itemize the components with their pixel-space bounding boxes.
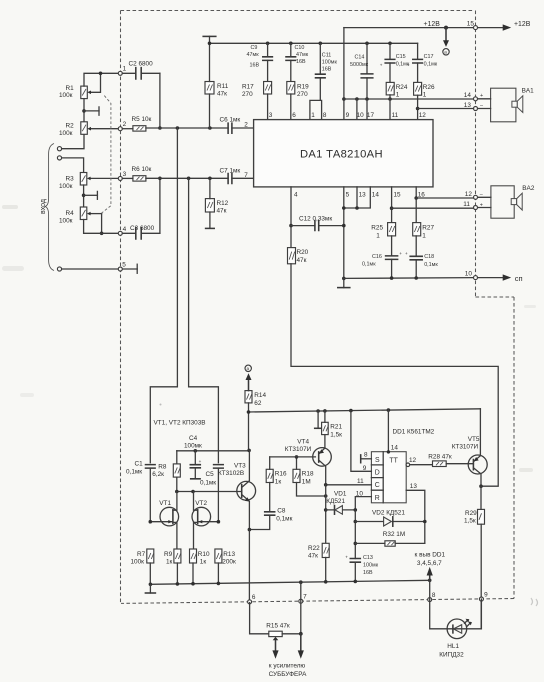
svg-text:–: – [480, 192, 483, 198]
svg-text:к усилителю: к усилителю [269, 662, 306, 669]
svg-text:5000мк: 5000мк [350, 62, 369, 68]
svg-text:R8: R8 [158, 464, 167, 471]
transistor VT1 [149, 492, 179, 550]
svg-text:СУББУФЕРА: СУББУФЕРА [269, 671, 308, 678]
resistor R21 [322, 411, 343, 448]
capacitor C2 [122, 61, 159, 79]
svg-text:+: + [199, 459, 202, 464]
svg-text:1к: 1к [200, 558, 207, 565]
svg-text:C2 6800: C2 6800 [129, 61, 154, 68]
+12V supply rail [344, 21, 531, 31]
svg-text:R21: R21 [330, 424, 342, 431]
diode VD2 [355, 509, 426, 526]
pin 10 R input wire [355, 490, 371, 510]
svg-text:C10: C10 [295, 45, 305, 51]
svg-text:1: 1 [422, 233, 426, 240]
svg-text:1: 1 [423, 91, 427, 98]
svg-text:100к: 100к [131, 558, 145, 565]
resistor R28 [428, 454, 452, 467]
pin 8 label [323, 112, 327, 119]
svg-text:R22: R22 [308, 545, 320, 552]
capacitor C11 [316, 43, 338, 100]
wire pin4 riser [289, 187, 293, 248]
wire VT4 collector chain [324, 485, 328, 544]
svg-text:9: 9 [363, 465, 367, 472]
svg-text:C3 6800: C3 6800 [130, 225, 155, 232]
wire VT3 emitter drop to node 6 [248, 530, 250, 601]
wire common to node 5 and ground bar [62, 264, 138, 273]
node 5 [118, 262, 126, 271]
pin 16 label [418, 191, 426, 198]
pin 7 label [244, 172, 248, 179]
node 7 [299, 593, 307, 603]
svg-text:R24: R24 [396, 84, 408, 91]
op-amp DA1 TA8210AH [254, 120, 433, 187]
output bus to node 10 [344, 276, 474, 280]
svg-text:C9: C9 [251, 45, 258, 51]
wire node 7 riser [300, 582, 302, 634]
svg-text:12: 12 [465, 191, 473, 198]
svg-text:8: 8 [323, 112, 327, 119]
pin 2 label [244, 121, 248, 128]
resistor R17 [242, 82, 272, 120]
arrow to DD1 supply pins [415, 552, 446, 581]
transistor VT4 [285, 438, 332, 485]
node 11 [463, 201, 483, 209]
svg-text:C8: C8 [277, 507, 286, 514]
svg-text:1: 1 [376, 233, 380, 240]
svg-text:C13: C13 [363, 555, 373, 561]
resistor R9 [164, 549, 181, 584]
svg-text:+: + [399, 251, 402, 256]
svg-text:16В: 16В [322, 67, 332, 73]
svg-text:C11: C11 [322, 53, 332, 59]
potentiometer R15 [266, 622, 302, 658]
wire C2 to R5 line [158, 73, 162, 130]
pin 4 label [294, 191, 298, 198]
svg-text:2: 2 [244, 121, 248, 128]
svg-text:R26: R26 [423, 84, 435, 91]
resistor R16 [266, 457, 287, 485]
ground at pin5 bus [338, 277, 350, 288]
svg-text:200к: 200к [222, 558, 236, 565]
svg-text:9: 9 [346, 112, 350, 119]
svg-text:0,1мк: 0,1мк [424, 262, 438, 268]
svg-text:13: 13 [359, 191, 367, 198]
resistor R10 [190, 549, 210, 584]
pin 14 label [372, 191, 380, 198]
svg-text:+12В: +12В [424, 21, 441, 28]
node 13 [464, 102, 483, 110]
svg-text:47к: 47к [217, 90, 227, 97]
wire channel-1 drop to VT1 stage [150, 128, 177, 463]
svg-text:100мк: 100мк [184, 442, 202, 449]
capacitor C5 [200, 465, 223, 522]
node 6 [248, 594, 256, 604]
svg-text:1,5к: 1,5к [464, 518, 476, 525]
svg-text:3,4,5,6,7: 3,4,5,6,7 [417, 560, 442, 567]
resistor R27 [413, 223, 435, 240]
svg-text:10: 10 [356, 490, 364, 497]
node 2 [118, 121, 126, 131]
resistor R22 [308, 543, 329, 581]
resistor R13 [215, 549, 236, 583]
svg-text:16В: 16В [296, 59, 306, 65]
capacitor C17 [407, 43, 438, 82]
wire pin15 to node 11 [390, 187, 474, 223]
svg-text:+: + [407, 62, 410, 67]
svg-text:R9: R9 [164, 551, 173, 558]
resistor R18 [293, 455, 328, 498]
svg-text:R19: R19 [297, 83, 309, 90]
pin 12 label [419, 112, 427, 119]
svg-text:–: – [480, 103, 483, 109]
resistor R19 [287, 82, 309, 120]
node 1 [118, 66, 126, 76]
wire pin16 to node 12 [414, 187, 473, 223]
pin 3 label [269, 112, 273, 119]
svg-text:C14: C14 [355, 55, 365, 61]
potentiometer R3 [59, 173, 120, 191]
svg-text:62: 62 [254, 400, 262, 407]
svg-text:C6 1мк: C6 1мк [220, 117, 241, 124]
capacitor C4 [184, 435, 202, 479]
pin 13 output wire [406, 483, 425, 543]
svg-text:R6 10к: R6 10к [132, 166, 152, 173]
svg-text:VT1, VT2 КП303В: VT1, VT2 КП303В [154, 419, 206, 426]
wire pin10 riser [356, 99, 358, 120]
svg-text:R20: R20 [297, 249, 309, 256]
svg-text:8: 8 [364, 452, 368, 459]
svg-text:11: 11 [392, 112, 399, 119]
wire R5 line to C6 [146, 126, 228, 130]
pin 8 tie-off [361, 452, 372, 463]
svg-text:BA2: BA2 [522, 185, 535, 192]
input terminal left channel [57, 147, 61, 151]
svg-text:R11: R11 [217, 83, 229, 90]
wire C3 to R6 line [158, 177, 162, 234]
svg-text:9: 9 [484, 592, 488, 599]
svg-text:17: 17 [367, 112, 375, 119]
svg-text:R: R [375, 495, 380, 502]
node 10 [465, 270, 478, 279]
svg-text:10: 10 [465, 270, 473, 277]
svg-text:C7 1мк: C7 1мк [220, 168, 241, 175]
flip-flop DD1 K561TM2 [371, 428, 434, 503]
speaker BA2 [478, 185, 535, 218]
wire pin11 riser [389, 99, 391, 120]
wire R6 line to C7 [146, 177, 228, 181]
node 3 [118, 171, 126, 180]
capacitor C16 [362, 236, 402, 278]
potentiometer R2 [59, 122, 120, 137]
svg-text:КД521: КД521 [326, 498, 345, 505]
svg-text:0,1мк: 0,1мк [424, 62, 438, 68]
svg-text:1,5к: 1,5к [330, 432, 342, 439]
svg-text:R2: R2 [66, 123, 75, 130]
svg-text:КИПД32: КИПД32 [439, 652, 464, 659]
capacitor C13 [345, 554, 378, 581]
svg-text:VT2: VT2 [195, 500, 207, 507]
svg-text:6: 6 [252, 594, 256, 601]
svg-text:15: 15 [467, 21, 475, 28]
svg-text:R5 10к: R5 10к [132, 116, 152, 123]
svg-text:VT5: VT5 [468, 436, 480, 443]
svg-text:0,1мк: 0,1мк [362, 261, 376, 267]
arrow subwoofer feed [269, 634, 308, 678]
pin 13 label [359, 191, 367, 198]
svg-text:14: 14 [372, 191, 380, 198]
svg-text:R27: R27 [422, 225, 434, 232]
resistor R5 [122, 116, 151, 131]
capacitor C14 [350, 43, 373, 99]
svg-text:1М: 1М [302, 478, 311, 485]
transistor VT5 [446, 409, 487, 488]
svg-text:0,1мк: 0,1мк [126, 468, 142, 475]
resistor R8 [152, 451, 180, 492]
pin 15 label [394, 191, 402, 198]
capacitor C10 [286, 43, 309, 81]
capacitor C7 [220, 168, 254, 184]
node 12 [465, 191, 483, 200]
svg-text:R15 47к: R15 47к [266, 622, 290, 629]
svg-text:КТ3107И: КТ3107И [285, 446, 312, 453]
svg-text:VD2 КД521: VD2 КД521 [372, 509, 405, 516]
svg-text:100к: 100к [59, 92, 73, 99]
node 9 [479, 592, 488, 601]
svg-text:1: 1 [123, 66, 127, 73]
+12V tap arrow to point a [443, 28, 449, 55]
svg-text:VT4: VT4 [297, 438, 309, 445]
svg-text:+: + [480, 202, 483, 208]
svg-text:15: 15 [394, 191, 402, 198]
wire LED to node 9 [467, 599, 482, 629]
svg-text:R18: R18 [302, 470, 314, 477]
svg-text:R12: R12 [217, 200, 229, 207]
pin 9 D input wire [351, 411, 372, 473]
resistor R32 [355, 531, 425, 546]
wire channel-2 drop to VT2 stage [189, 178, 219, 462]
svg-text:C17: C17 [424, 54, 434, 60]
svg-text:4: 4 [123, 226, 127, 233]
svg-text:0,1мк: 0,1мк [276, 515, 292, 522]
arrow R14 to point a [245, 365, 252, 391]
svg-text:к выв DD1: к выв DD1 [415, 552, 446, 559]
drain bus to VT3 base [175, 490, 242, 494]
chassis ground top rail [203, 36, 417, 45]
wire R1 bottom to ground tap [82, 99, 99, 122]
input terminal right channel [57, 156, 61, 160]
svg-text:100мк: 100мк [363, 563, 379, 569]
pin 14 riser [387, 410, 399, 453]
svg-text:C15: C15 [396, 54, 406, 60]
pin 17 label [367, 112, 375, 119]
pin 5 label [346, 191, 350, 198]
svg-text:D: D [375, 470, 380, 477]
ganged-wiper dashed link [102, 96, 111, 214]
svg-text:5: 5 [346, 191, 350, 198]
svg-text:КТ3107И: КТ3107И [452, 443, 479, 450]
collector bus upper [177, 449, 251, 453]
capacitor C8 [248, 483, 293, 532]
svg-text:КТ3102В: КТ3102В [218, 470, 244, 477]
node 4 [118, 226, 126, 235]
svg-text:4: 4 [294, 191, 298, 198]
svg-text:3: 3 [123, 171, 127, 178]
node 15 [467, 21, 478, 30]
svg-text:11: 11 [357, 478, 364, 485]
wire node13 to pin12 riser [418, 108, 474, 110]
svg-text:R28 47к: R28 47к [428, 454, 452, 461]
svg-text:12: 12 [409, 457, 417, 464]
svg-text:R17: R17 [242, 83, 254, 90]
svg-text:1к: 1к [166, 558, 173, 565]
svg-text:12: 12 [419, 112, 427, 119]
wire R3 bottom to ground tap [82, 185, 98, 207]
wire pin17 riser [366, 99, 368, 120]
svg-text:270: 270 [242, 91, 253, 98]
arrow output сп [478, 274, 523, 283]
capacitor C15 [380, 43, 410, 82]
svg-text:1: 1 [396, 91, 400, 98]
svg-text:16: 16 [418, 191, 426, 198]
svg-text:13: 13 [410, 483, 418, 490]
resistor R25 [371, 223, 395, 240]
svg-text:+: + [380, 62, 383, 67]
svg-text:R10: R10 [198, 551, 210, 558]
pin 1 label [311, 112, 315, 119]
svg-text:1к: 1к [275, 478, 282, 485]
svg-text:8: 8 [432, 592, 436, 599]
svg-text:VT1: VT1 [159, 500, 171, 507]
resistor R7 [131, 549, 154, 584]
resistor R11 [205, 43, 229, 128]
resistor R20 [288, 248, 309, 265]
svg-text:VD1: VD1 [334, 491, 347, 498]
svg-text:а: а [247, 366, 250, 371]
wire VT4 base [270, 456, 316, 458]
capacitor C1 [126, 461, 155, 522]
svg-text:6: 6 [292, 112, 296, 119]
svg-text:C12 0,33мк: C12 0,33мк [299, 215, 332, 222]
svg-text:47к: 47к [308, 552, 318, 559]
svg-text:R29: R29 [465, 510, 477, 517]
svg-text:R14: R14 [254, 392, 266, 399]
wire pins 5 13 14 join [342, 187, 370, 279]
wire node 8 to LED [430, 580, 447, 629]
svg-text:R13: R13 [223, 551, 235, 558]
wire input1 to R2 bottom [62, 134, 84, 148]
svg-text:47мк: 47мк [296, 52, 309, 58]
rail stub bar near R21 [315, 411, 322, 428]
svg-text:100к: 100к [59, 130, 73, 137]
svg-text:14: 14 [464, 92, 472, 99]
svg-text:+: + [345, 554, 348, 559]
ground bar under R12 [206, 227, 215, 229]
label вход [40, 199, 47, 214]
ground symbol bottom left [145, 584, 155, 593]
svg-text:+: + [405, 251, 408, 256]
svg-text:C5: C5 [206, 471, 215, 478]
resistor R24 [386, 82, 408, 99]
svg-text:R7: R7 [137, 551, 146, 558]
svg-text:C: C [375, 482, 380, 489]
capacitor C18 [405, 236, 438, 278]
svg-text:+12В: +12В [514, 21, 531, 28]
pin 10 label [357, 112, 365, 119]
pin 11 C input wire [324, 478, 371, 487]
svg-text:7: 7 [303, 593, 307, 600]
svg-text:C1: C1 [135, 461, 144, 468]
svg-text:11: 11 [463, 201, 470, 208]
svg-text:7: 7 [244, 172, 248, 179]
capacitor C12 [291, 215, 344, 230]
LED HL1 [439, 619, 472, 659]
svg-text:47мк: 47мк [247, 52, 260, 58]
potentiometer R4 [59, 207, 120, 235]
svg-text:16В: 16В [363, 570, 373, 576]
svg-text:100к: 100к [59, 218, 73, 225]
svg-text:2: 2 [123, 121, 127, 128]
svg-text:а: а [444, 50, 447, 55]
svg-text:R3: R3 [66, 176, 75, 183]
svg-text:+: + [480, 93, 483, 99]
svg-text:вход: вход [40, 199, 47, 214]
svg-text:100к: 100к [59, 183, 73, 190]
svg-text:R25: R25 [371, 225, 383, 232]
label VT1 VT2 type [154, 419, 206, 426]
transistor VT3 [218, 450, 256, 529]
svg-text:DD1 К561ТМ2: DD1 К561ТМ2 [393, 428, 435, 435]
capacitor C9 [247, 43, 273, 81]
svg-text:R1: R1 [66, 85, 75, 92]
svg-text:6,2к: 6,2к [152, 471, 164, 478]
wire pin9 riser to +12V rail [342, 28, 346, 120]
svg-text:HL1: HL1 [447, 643, 459, 650]
resistor R14 [245, 391, 266, 451]
supply rail lower section [247, 408, 481, 414]
svg-text:3: 3 [269, 112, 273, 119]
svg-text:сп: сп [515, 274, 523, 283]
svg-text:ТТ: ТТ [389, 457, 398, 464]
supply bus to pins 9 10 17 11 [344, 97, 474, 101]
dashed enclosure border [121, 11, 515, 604]
resistor R12 [205, 178, 228, 228]
pin 11 label [392, 112, 399, 119]
pin 6 label [292, 112, 296, 119]
wire R input vertical [354, 510, 358, 559]
svg-text:47к: 47к [217, 207, 227, 214]
wire pins 1-8 bridge [310, 100, 322, 119]
diode VD1 [326, 491, 357, 515]
svg-text:R4: R4 [66, 210, 75, 217]
svg-text:100мк: 100мк [322, 60, 338, 66]
svg-text:DA1 ТА8210АН: DA1 ТА8210АН [300, 149, 383, 161]
node 8 [428, 592, 436, 601]
wire input2 to R3 top [62, 158, 84, 173]
input terminal common [57, 267, 61, 271]
svg-text:C18: C18 [424, 254, 434, 260]
svg-text:5: 5 [122, 262, 126, 269]
resistor R29 [464, 486, 485, 629]
svg-text:VT3: VT3 [234, 463, 246, 470]
svg-text:10: 10 [357, 112, 365, 119]
wire pin4 mute feedback loop [291, 264, 498, 486]
resistor R26 [414, 82, 435, 119]
svg-text:16В: 16В [250, 63, 260, 69]
svg-text:14: 14 [391, 445, 399, 452]
svg-text:C4: C4 [189, 435, 198, 442]
